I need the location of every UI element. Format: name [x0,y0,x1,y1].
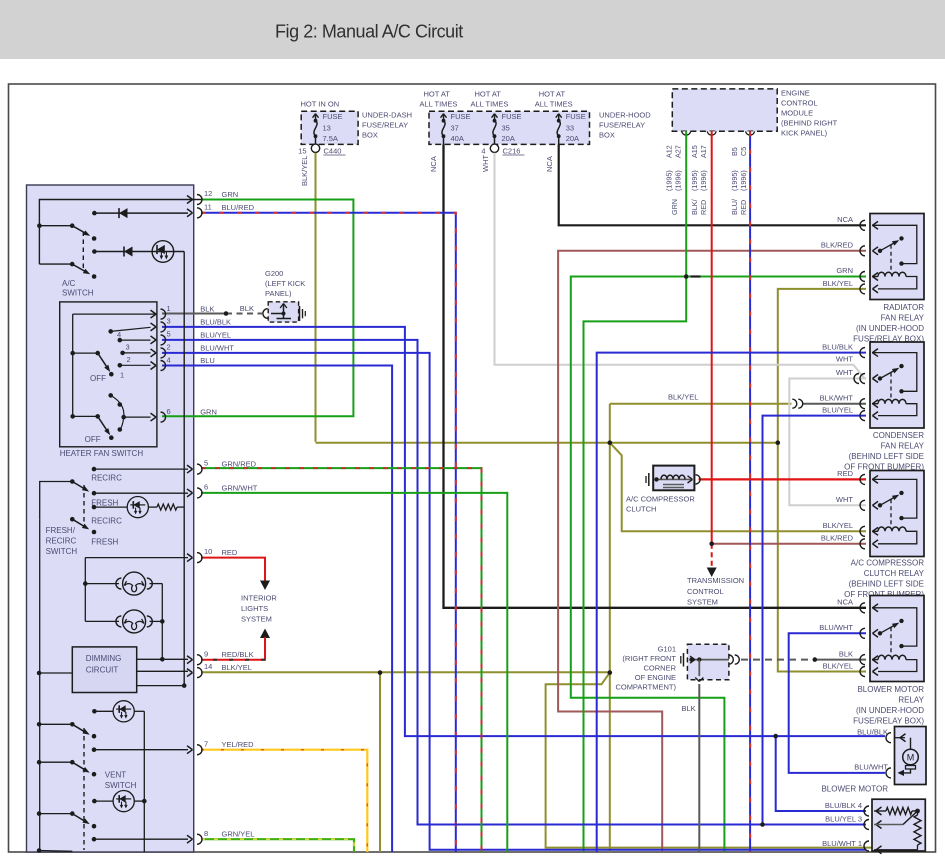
svg-text:6: 6 [204,483,208,492]
svg-text:FUSE/RELAY BOX): FUSE/RELAY BOX) [853,717,924,726]
svg-text:(LEFT KICK: (LEFT KICK [265,279,305,288]
svg-text:WHT: WHT [836,368,853,377]
svg-text:3: 3 [126,343,130,352]
svg-text:C5: C5 [739,147,748,156]
svg-text:UNDER-HOOD: UNDER-HOOD [599,111,651,120]
svg-text:NCA: NCA [545,156,554,172]
svg-text:FAN RELAY: FAN RELAY [881,314,925,323]
svg-text:G101: G101 [658,645,676,654]
svg-text:HOT IN ON: HOT IN ON [301,100,340,109]
svg-text:SYSTEM: SYSTEM [687,598,718,607]
svg-text:BLK/YEL: BLK/YEL [823,521,853,530]
svg-text:FUSE/RELAY: FUSE/RELAY [599,121,645,130]
svg-text:BLK/YEL: BLK/YEL [668,393,698,402]
svg-text:COMPARTMENT): COMPARTMENT) [615,683,676,692]
svg-text:GRN: GRN [222,190,239,199]
svg-text:BLK/YEL: BLK/YEL [222,663,252,672]
svg-text:11: 11 [204,202,212,211]
svg-text:TRANSMISSION: TRANSMISSION [687,576,744,585]
svg-text:FRESH/: FRESH/ [46,526,76,535]
svg-text:HOT AT: HOT AT [475,90,502,99]
svg-text:ALL TIMES: ALL TIMES [420,100,458,109]
svg-text:FRESH: FRESH [91,538,118,547]
svg-text:ENGINE: ENGINE [781,89,810,98]
svg-text:CONTROL: CONTROL [687,587,724,596]
svg-text:CORNER: CORNER [643,664,676,673]
svg-text:OFF: OFF [85,435,101,444]
svg-text:FUSE: FUSE [451,112,471,121]
svg-text:(1996): (1996) [674,170,683,191]
svg-text:HOT AT: HOT AT [424,90,451,99]
svg-text:HOT AT: HOT AT [539,90,566,99]
svg-text:14: 14 [204,662,212,671]
svg-text:20A: 20A [502,134,515,143]
svg-text:BLK: BLK [682,704,696,713]
svg-text:RECIRC: RECIRC [46,537,77,546]
svg-text:INTERIOR: INTERIOR [241,594,277,603]
svg-text:(1995): (1995) [730,170,739,191]
svg-text:BLOWER MOTOR: BLOWER MOTOR [821,785,888,794]
svg-text:RELAY: RELAY [898,696,924,705]
svg-text:A27: A27 [674,145,683,158]
svg-text:(RIGHT FRONT: (RIGHT FRONT [622,654,676,663]
svg-text:1: 1 [120,371,124,380]
svg-text:7: 7 [204,739,208,748]
svg-text:WHT: WHT [836,355,853,364]
svg-text:(1996): (1996) [739,170,748,191]
svg-text:BLU/YEL: BLU/YEL [200,330,231,339]
svg-text:RED/BLK: RED/BLK [222,650,254,659]
svg-text:BLU/WHT: BLU/WHT [819,623,853,632]
svg-text:4: 4 [481,147,485,156]
svg-text:BOX: BOX [599,131,615,140]
svg-text:SWITCH: SWITCH [46,547,78,556]
svg-text:NCA: NCA [837,215,853,224]
svg-text:B5: B5 [730,147,739,156]
svg-text:BLU/YEL: BLU/YEL [822,405,853,414]
svg-text:Fig 2: Manual A/C Circuit: Fig 2: Manual A/C Circuit [275,22,463,42]
svg-text:CONDENSER: CONDENSER [873,431,924,440]
svg-text:A15: A15 [690,145,699,158]
svg-text:RADIATOR: RADIATOR [883,303,924,312]
svg-text:(1996): (1996) [699,170,708,191]
svg-text:CLUTCH: CLUTCH [626,505,656,514]
svg-text:SWITCH: SWITCH [105,781,137,790]
svg-text:7.5A: 7.5A [323,134,338,143]
svg-text:BLK/: BLK/ [690,199,699,215]
svg-text:SWITCH: SWITCH [62,289,94,298]
svg-text:C216: C216 [503,147,521,156]
svg-text:FUSE: FUSE [502,112,522,121]
svg-text:(BEHIND LEFT SIDE: (BEHIND LEFT SIDE [849,452,924,461]
svg-text:CLUTCH RELAY: CLUTCH RELAY [864,569,925,578]
svg-text:9: 9 [204,649,208,658]
svg-text:RED: RED [222,548,238,557]
svg-text:FUSE/RELAY: FUSE/RELAY [362,121,408,130]
svg-text:BLU/: BLU/ [730,199,739,215]
svg-text:KICK PANEL): KICK PANEL) [781,129,828,138]
svg-text:HEATER FAN SWITCH: HEATER FAN SWITCH [60,449,144,458]
svg-text:BLK/RED: BLK/RED [821,241,854,250]
svg-text:13: 13 [323,124,331,133]
svg-text:A12: A12 [665,145,674,158]
svg-text:CIRCUIT: CIRCUIT [86,666,119,675]
svg-text:BLU/WHT: BLU/WHT [854,763,888,772]
svg-text:BLK: BLK [240,304,254,313]
svg-text:MODULE: MODULE [781,109,813,118]
svg-text:A/C: A/C [62,279,76,288]
svg-text:DIMMING: DIMMING [86,654,122,663]
svg-text:A17: A17 [699,145,708,158]
svg-text:G200: G200 [265,269,283,278]
svg-text:35: 35 [502,124,510,133]
svg-text:CONTROL: CONTROL [781,99,818,108]
svg-text:RECIRC: RECIRC [91,474,122,483]
svg-text:6: 6 [167,407,171,416]
svg-text:RED: RED [739,200,748,215]
svg-text:BLU: BLU [200,356,215,365]
svg-text:A/C COMPRESSOR: A/C COMPRESSOR [851,559,925,568]
svg-text:(IN UNDER-HOOD: (IN UNDER-HOOD [856,706,924,715]
svg-text:BLK: BLK [200,305,214,314]
svg-text:FUSE: FUSE [323,112,343,121]
svg-text:3: 3 [167,317,171,326]
svg-text:(IN UNDER-HOOD: (IN UNDER-HOOD [856,324,924,333]
svg-text:OF ENGINE: OF ENGINE [635,673,676,682]
svg-text:(BEHIND LEFT SIDE: (BEHIND LEFT SIDE [849,580,924,589]
svg-text:BLU/YEL 3: BLU/YEL 3 [825,814,862,823]
svg-text:BLOWER MOTOR: BLOWER MOTOR [857,685,924,694]
svg-text:BLU/BLK: BLU/BLK [822,342,853,351]
svg-text:BLK/YEL: BLK/YEL [823,279,853,288]
svg-text:RECIRC: RECIRC [91,517,122,526]
svg-text:20A: 20A [566,134,579,143]
svg-text:BLU/RED: BLU/RED [222,203,255,212]
svg-text:(1995): (1995) [665,170,674,191]
svg-text:WHT: WHT [481,155,490,172]
svg-text:(BEHIND RIGHT: (BEHIND RIGHT [781,119,838,128]
svg-text:GRN/RED: GRN/RED [222,460,257,469]
svg-text:12: 12 [204,189,212,198]
svg-text:40A: 40A [451,134,464,143]
svg-text:A/C COMPRESSOR: A/C COMPRESSOR [626,495,695,504]
svg-text:33: 33 [566,124,574,133]
svg-text:37: 37 [451,124,459,133]
svg-text:C440: C440 [324,147,342,156]
svg-text:ALL TIMES: ALL TIMES [535,100,573,109]
svg-text:4: 4 [117,330,121,339]
svg-text:(1995): (1995) [690,170,699,191]
svg-text:LIGHTS: LIGHTS [241,604,268,613]
svg-text:OFF: OFF [90,374,106,383]
svg-text:BLK/YEL: BLK/YEL [300,156,309,186]
svg-text:10: 10 [204,547,212,556]
svg-text:8: 8 [204,829,208,838]
svg-text:NCA: NCA [837,598,853,607]
svg-text:M: M [907,753,915,763]
svg-text:2: 2 [127,355,131,364]
svg-text:RED: RED [837,469,853,478]
svg-text:UNDER-DASH: UNDER-DASH [362,111,412,120]
svg-text:NCA: NCA [429,156,438,172]
svg-text:GRN: GRN [200,408,217,417]
svg-text:2: 2 [167,343,171,352]
svg-text:15: 15 [298,147,306,156]
svg-text:4: 4 [167,355,171,364]
svg-text:BLU/BLK: BLU/BLK [857,727,888,736]
svg-text:GRN: GRN [670,199,679,215]
svg-text:ALL TIMES: ALL TIMES [471,100,509,109]
svg-text:YEL/RED: YEL/RED [222,740,255,749]
svg-text:GRN/YEL: GRN/YEL [222,830,255,839]
svg-text:5: 5 [167,330,171,339]
svg-text:BLK/WHT: BLK/WHT [820,394,854,403]
svg-text:SYSTEM: SYSTEM [241,615,272,624]
svg-text:RED: RED [699,200,708,215]
svg-text:BOX: BOX [362,131,378,140]
svg-text:BLK/RED: BLK/RED [821,534,854,543]
svg-text:GRN/WHT: GRN/WHT [222,483,258,492]
svg-text:FUSE: FUSE [566,112,586,121]
svg-text:BLU/BLK: BLU/BLK [200,317,231,326]
svg-text:5: 5 [204,459,208,468]
svg-text:BLU/BLK 4: BLU/BLK 4 [825,801,862,810]
svg-text:BLK/YEL: BLK/YEL [823,661,853,670]
svg-text:BLK: BLK [839,649,853,658]
svg-text:VENT: VENT [105,771,126,780]
svg-text:BLU/WHT 1: BLU/WHT 1 [822,839,862,848]
svg-text:WHT: WHT [836,495,853,504]
svg-text:GRN: GRN [836,266,853,275]
svg-text:1: 1 [167,304,171,313]
svg-text:FAN RELAY: FAN RELAY [881,442,925,451]
svg-text:PANEL): PANEL) [265,289,292,298]
svg-text:BLU/WHT: BLU/WHT [200,343,234,352]
